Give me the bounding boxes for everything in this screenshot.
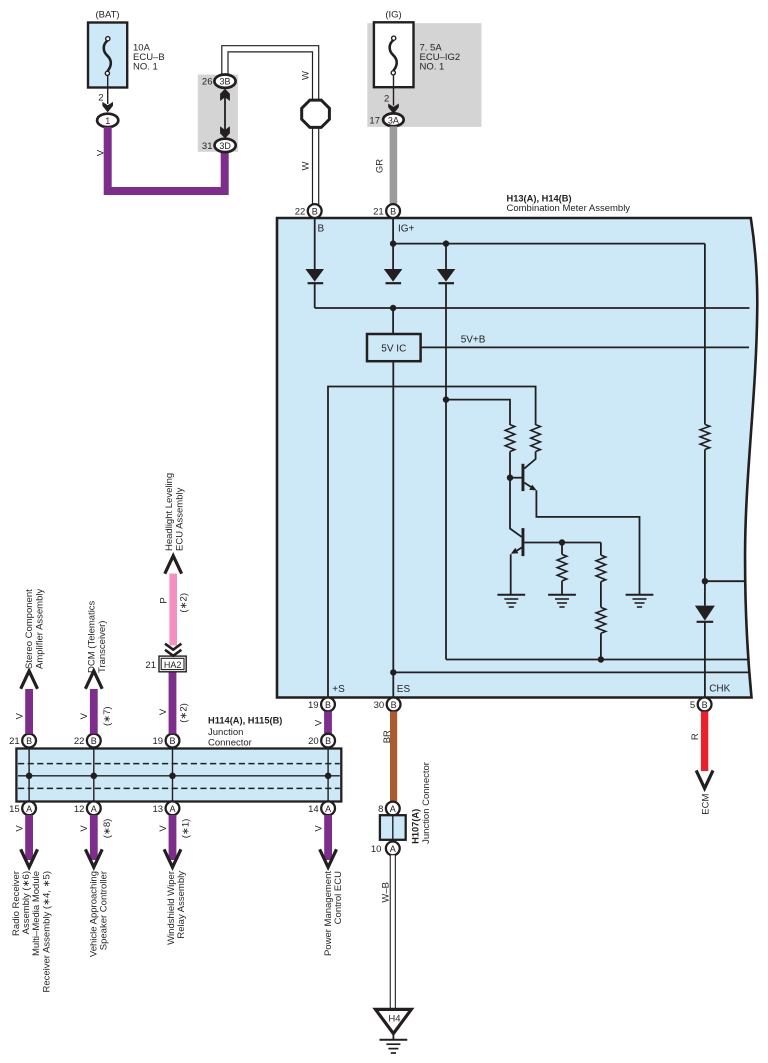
resistor R3 <box>557 554 567 581</box>
wire V down to Vehicle Approaching Speaker <box>90 815 98 860</box>
svg-text:A: A <box>91 804 97 814</box>
junction connector H107(A) box <box>380 815 406 840</box>
wire V down to Windshield Wiper Relay <box>169 815 177 860</box>
noise filter octagon <box>302 100 330 127</box>
svg-text:V: V <box>158 825 169 832</box>
connector 3D ellipse <box>215 139 236 152</box>
wire BR brown from pin 30 to H107 <box>390 712 397 802</box>
arrow up w2 <box>85 671 102 689</box>
svg-text:V: V <box>79 825 90 832</box>
wire 5V+B rail <box>421 346 749 348</box>
wire ES column 5V IC down to pin 30 <box>392 361 394 697</box>
svg-text:R: R <box>690 733 701 740</box>
double chevron into HA2 <box>165 644 181 656</box>
wire GR gray from 3A to pin 21 <box>390 126 398 205</box>
wire R2 bottom to Q1 collector <box>524 452 535 469</box>
svg-text:B: B <box>390 207 396 217</box>
svg-text:H114(A), H115(B): H114(A), H115(B) <box>208 715 282 725</box>
ground H4 symbol <box>392 1034 394 1040</box>
connector HA2 box <box>159 656 186 672</box>
svg-text:NO. 1: NO. 1 <box>133 62 158 73</box>
svg-text:NO. 1: NO. 1 <box>420 62 445 73</box>
wire IG+ branch rail right to CHK column <box>393 243 705 245</box>
svg-text:3D: 3D <box>219 141 231 151</box>
wire V up to HA2 <box>169 672 177 734</box>
connector 3B ellipse <box>214 75 235 88</box>
wire V down to Power Management ECU <box>324 815 332 860</box>
svg-text:A: A <box>390 844 396 854</box>
pin 10 A of H107 <box>386 842 400 856</box>
bottom pin 14 A <box>321 801 335 815</box>
wire Q2 base rail <box>524 542 601 544</box>
svg-text:Connector: Connector <box>208 738 252 749</box>
svg-text:30: 30 <box>374 700 385 711</box>
svg-text:14: 14 <box>308 804 319 815</box>
wire W-B hollow to ground H4 <box>390 855 396 1009</box>
svg-text:Junction Connector: Junction Connector <box>421 762 432 844</box>
pin 8 A of H107 <box>386 802 400 816</box>
svg-text:Amplifier Assembly: Amplifier Assembly <box>35 589 46 669</box>
svg-text:H4: H4 <box>388 1014 400 1025</box>
diode D3 <box>437 269 456 282</box>
svg-text:5V IC: 5V IC <box>381 343 406 354</box>
svg-text:5V+B: 5V+B <box>461 335 486 346</box>
svg-text:(∗8): (∗8) <box>102 819 113 839</box>
svg-text:21: 21 <box>145 660 156 671</box>
node dot ES branch <box>390 669 396 675</box>
wire D1 cathode down and right to node <box>314 284 316 309</box>
svg-text:ECM: ECM <box>700 794 711 815</box>
node dot IG+ at pin21 <box>390 240 396 246</box>
arrow down at BAT pin 2 <box>102 102 113 113</box>
double arrow between 3B and 3D <box>224 96 226 131</box>
fuse element (IG) <box>390 40 397 71</box>
svg-text:(IG): (IG) <box>385 10 401 21</box>
svg-text:B: B <box>325 700 331 710</box>
svg-text:20: 20 <box>308 736 319 747</box>
svg-text:B: B <box>312 207 318 217</box>
svg-text:V: V <box>314 825 325 832</box>
svg-text:B: B <box>91 736 97 746</box>
wire pin21 IG+ down <box>392 218 394 269</box>
arrow down w4 <box>320 849 337 867</box>
pin 21 B of meter <box>386 204 400 218</box>
fuse element (BAT) <box>104 40 111 71</box>
svg-text:V: V <box>314 719 325 726</box>
svg-text:15: 15 <box>9 804 20 815</box>
svg-text:CHK: CHK <box>709 684 730 695</box>
wire V up to DCM <box>90 689 98 734</box>
wire R1 bottom to Q2 collector <box>510 452 522 537</box>
svg-text:Transceiver): Transceiver) <box>97 621 108 673</box>
svg-text:21: 21 <box>373 207 384 218</box>
node dot Q1 base <box>507 475 513 481</box>
svg-text:W: W <box>301 71 312 80</box>
wire Q1 base <box>510 477 522 479</box>
pin 19 B <box>321 698 335 712</box>
svg-text:A: A <box>390 804 396 814</box>
pin 22 B of meter <box>308 204 322 218</box>
transistor Q2 bar <box>522 528 525 556</box>
wire node to 5V IC <box>392 308 394 334</box>
svg-text:(BAT): (BAT) <box>95 10 119 21</box>
wire cathode rail to right edge <box>315 307 750 309</box>
svg-text:V: V <box>15 825 26 832</box>
node dot base rail R3 <box>559 539 565 545</box>
pin 5 B <box>698 698 712 712</box>
svg-text:A: A <box>169 804 175 814</box>
arrow up w3 <box>165 556 182 574</box>
node dot IG+ at D3 <box>443 240 449 246</box>
bus node dots <box>26 773 33 780</box>
arrow down ECM <box>696 770 713 788</box>
wire diode D3 column down <box>445 244 447 269</box>
ground G1 (Q2 emitter) <box>497 595 525 607</box>
svg-text:B: B <box>391 700 397 710</box>
diode D1 <box>305 269 324 282</box>
wire bottom rail <box>446 659 750 661</box>
svg-text:12: 12 <box>74 804 85 815</box>
wire R4 column <box>600 543 602 660</box>
ground G3 (Q1 emitter) <box>626 595 654 607</box>
wire branch to R1 <box>446 400 510 425</box>
bottom pin 13 A <box>166 801 180 815</box>
pin 30 B <box>387 698 401 712</box>
svg-text:Speaker Controller: Speaker Controller <box>99 871 110 950</box>
top pin 20 B <box>321 734 335 748</box>
bottom pin 12 A <box>87 801 101 815</box>
svg-text:H107(A): H107(A) <box>410 809 420 844</box>
svg-text:B: B <box>169 736 175 746</box>
svg-text:HA2: HA2 <box>164 660 182 670</box>
svg-text:Control ECU: Control ECU <box>333 871 344 924</box>
svg-text:22: 22 <box>74 736 85 747</box>
wire ES branch right to edge <box>393 671 749 673</box>
arrow down w3 <box>164 849 181 867</box>
top pin 21 B <box>22 734 36 748</box>
svg-text:+S: +S <box>332 684 345 695</box>
arrow up w1 <box>21 671 38 689</box>
wire V up to Stereo Component Amplifier <box>25 689 33 734</box>
svg-text:Relay Assembly: Relay Assembly <box>176 871 187 939</box>
svg-text:(∗2): (∗2) <box>179 593 190 613</box>
wire Q2 emitter down <box>511 547 522 594</box>
svg-text:P: P <box>158 597 169 603</box>
diode D2 <box>384 269 403 282</box>
svg-text:H13(A), H14(B): H13(A), H14(B) <box>507 193 572 203</box>
wire CHK stub to right edge <box>705 580 746 582</box>
svg-text:19: 19 <box>308 700 319 711</box>
wire pin22 down to diode D1 <box>314 218 316 269</box>
svg-text:V: V <box>95 149 106 156</box>
junction connector H114(A) H115(B) box <box>16 749 341 802</box>
wire fuse IG pin 2 <box>393 75 395 106</box>
ground G2 (R3) <box>548 595 576 607</box>
combination meter assembly box H13(A) H14(B) <box>277 218 757 698</box>
5V IC box <box>367 334 421 361</box>
svg-text:Headlight Leveling: Headlight Leveling <box>164 473 175 551</box>
svg-text:BR: BR <box>382 730 393 743</box>
svg-text:W–B: W–B <box>380 882 391 903</box>
arrow down w1 <box>21 849 38 867</box>
ground H4 triangle <box>376 1009 412 1033</box>
resistor R4 lower <box>596 607 606 633</box>
svg-text:8: 8 <box>378 804 383 815</box>
resistor R2 <box>531 425 541 452</box>
svg-text:Junction: Junction <box>208 727 243 738</box>
svg-text:21: 21 <box>9 736 20 747</box>
svg-text:Receiver Assembly (∗4, ∗5): Receiver Assembly (∗4, ∗5) <box>41 871 52 993</box>
wire P pink to headlight leveling <box>169 574 177 646</box>
svg-text:3B: 3B <box>219 77 230 87</box>
svg-text:V: V <box>158 708 169 715</box>
svg-text:B: B <box>702 700 708 710</box>
svg-text:W: W <box>301 161 312 170</box>
svg-text:10: 10 <box>371 844 382 855</box>
fuse (IG) box <box>374 22 414 87</box>
connector 1 ellipse <box>97 114 118 127</box>
fuse (IG) gray background <box>367 23 481 127</box>
transistor Q1 bar <box>522 464 525 491</box>
wire R red from pin 5 to ECM <box>701 712 708 772</box>
node dot D3 column branch <box>443 396 449 402</box>
svg-text:B: B <box>26 736 32 746</box>
svg-text:V: V <box>79 712 90 719</box>
top pin 19 B <box>166 734 180 748</box>
svg-text:GR: GR <box>375 159 386 173</box>
diode D4 CHK <box>695 606 715 621</box>
svg-text:22: 22 <box>295 207 306 218</box>
resistor R4 upper <box>596 555 606 582</box>
wire V down to Radio Receiver <box>25 815 33 860</box>
svg-text:B: B <box>318 224 325 235</box>
svg-text:ES: ES <box>397 684 411 695</box>
svg-text:31: 31 <box>202 141 213 152</box>
resistor R1 <box>505 425 515 452</box>
connector 3B/3D gray box <box>198 75 238 152</box>
transistor Q2 emitter arrow <box>511 548 519 554</box>
top pin 22 B <box>87 734 101 748</box>
svg-text:19: 19 <box>153 736 164 747</box>
wire V from meter pin19 to junction pin20 <box>324 712 332 734</box>
svg-text:2: 2 <box>384 94 389 105</box>
svg-text:ECU Assembly: ECU Assembly <box>175 487 186 551</box>
svg-text:DCM (Telematics: DCM (Telematics <box>86 600 97 673</box>
svg-text:V: V <box>15 712 26 719</box>
svg-text:A: A <box>26 804 32 814</box>
wire V violet from connector 1 to 3D <box>108 127 225 191</box>
svg-text:Stereo Component: Stereo Component <box>24 589 35 669</box>
wire fuse BAT pin 2 <box>107 75 109 104</box>
svg-text:A: A <box>325 804 331 814</box>
svg-text:B: B <box>325 736 331 746</box>
arrow down w2 <box>85 849 102 867</box>
wire Q1 emitter run to ground <box>524 483 639 595</box>
svg-text:2: 2 <box>98 93 103 104</box>
transistor Q1 emitter arrow <box>529 485 536 491</box>
svg-text:(∗7): (∗7) <box>102 706 113 726</box>
svg-text:(∗2): (∗2) <box>179 703 190 723</box>
connector 3A ellipse <box>383 113 404 126</box>
dashed bus lines <box>18 763 340 765</box>
svg-text:(∗1): (∗1) <box>181 819 192 839</box>
fuse (BAT) gray none / blue box <box>88 23 127 88</box>
svg-text:26: 26 <box>202 77 213 88</box>
solid bus line <box>18 775 340 777</box>
svg-text:IG+: IG+ <box>398 224 415 235</box>
bottom pin 15 A <box>22 801 36 815</box>
wire R3 column <box>561 543 563 595</box>
wire CHK column down <box>704 244 706 425</box>
svg-text:5: 5 <box>690 700 695 711</box>
svg-text:Combination Meter Assembly: Combination Meter Assembly <box>507 203 631 214</box>
resistor R5 CHK <box>700 424 710 449</box>
svg-text:17: 17 <box>369 115 380 126</box>
node dot cathode rail <box>390 305 396 311</box>
arrow down at IG pin 2 <box>388 104 399 115</box>
node dot CHK stub <box>702 578 708 584</box>
svg-text:1: 1 <box>105 116 110 126</box>
wire W hollow from 3B up right to octagon and down to pin 22 <box>225 49 316 205</box>
svg-text:13: 13 <box>153 804 164 815</box>
node dot bottom rail R4 <box>598 656 604 662</box>
wire +S rail <box>328 387 536 698</box>
internal pin-through wires <box>29 749 328 802</box>
svg-text:3A: 3A <box>388 115 399 125</box>
